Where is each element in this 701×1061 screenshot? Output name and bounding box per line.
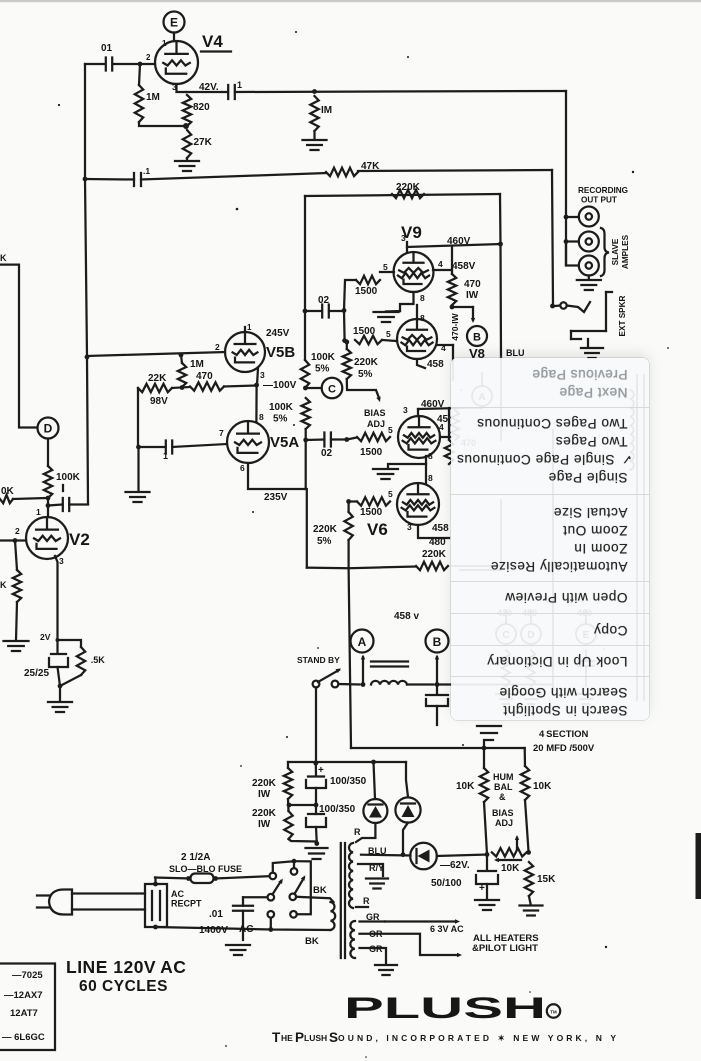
resistor 220K (feedback top) <box>392 182 424 198</box>
resistor 1500 (V9 upper grid) <box>355 276 380 297</box>
arrow node A <box>361 655 365 685</box>
capacitor 25/25 <box>24 640 68 679</box>
arrow 10K pot label <box>494 858 521 874</box>
svg-text:100/350: 100/350 <box>319 804 356 815</box>
jack tip EXT SPKR <box>550 302 567 308</box>
wire right rail down to jacks <box>565 91 567 265</box>
svg-text:458: 458 <box>427 359 444 370</box>
label V5B <box>215 342 295 361</box>
svg-text:25/25: 25/25 <box>24 668 49 679</box>
ground (heater winding) <box>375 965 397 975</box>
svg-text:50/100: 50/100 <box>431 878 462 889</box>
wire switch to primary <box>296 897 334 902</box>
svg-text:1: 1 <box>247 323 252 332</box>
svg-text:8: 8 <box>428 473 433 483</box>
scan gray top edge <box>0 0 701 2</box>
wire D3 to pot <box>437 855 487 857</box>
svg-text:4: 4 <box>438 259 443 269</box>
switch power DPDT <box>268 868 298 917</box>
wire V9 lower pin3 <box>417 359 425 368</box>
wire D2 to BLU line <box>401 823 408 858</box>
resistor 1.5K (V2 cathode) <box>58 640 106 675</box>
label GR lead 2 <box>369 944 383 954</box>
svg-text:OUT PUT: OUT PUT <box>581 196 617 205</box>
svg-text:10K: 10K <box>456 781 475 792</box>
wire choke to B node <box>407 682 452 687</box>
wire hum bal pot left <box>484 802 489 857</box>
svg-text:BIAS: BIAS <box>364 408 386 418</box>
svg-text:IW: IW <box>258 789 271 800</box>
wire 47K to right corner <box>358 170 552 171</box>
wire E to V4 pin 1 <box>162 33 174 49</box>
wire down to ground from 22K node <box>137 447 139 490</box>
svg-text:480: 480 <box>429 537 446 548</box>
resistor 1M (V5B grid) <box>178 355 204 387</box>
svg-text:1500: 1500 <box>353 326 376 337</box>
tube V9 upper <box>394 252 434 292</box>
jack RECORDING OUTPUT <box>564 207 599 227</box>
wire V9 pin3 to 460V rail <box>401 233 501 252</box>
svg-text:5: 5 <box>383 262 388 272</box>
wire feedback line to 47K <box>141 173 326 180</box>
svg-text:—62V.: —62V. <box>440 860 470 871</box>
svg-text:3: 3 <box>407 522 412 532</box>
label 2V <box>40 632 51 642</box>
wire B+ bus to hum bal <box>351 746 525 751</box>
svg-text:V6: V6 <box>367 520 388 539</box>
svg-text:3: 3 <box>172 82 177 92</box>
resistor K (V2 grid leak) <box>0 570 21 602</box>
node ghost D <box>521 608 541 704</box>
scan artifact right edge <box>696 833 701 899</box>
tube V9 lower <box>397 319 437 359</box>
svg-text:EXT SPKR: EXT SPKR <box>618 295 627 336</box>
diode rectifier D2 <box>395 762 420 823</box>
ground (below 27K) <box>175 158 199 171</box>
svg-text:HE: HE <box>281 1033 293 1043</box>
svg-text:8: 8 <box>420 313 425 323</box>
svg-text:E: E <box>170 16 178 30</box>
svg-text:LUSH: LUSH <box>304 1033 327 1043</box>
svg-text:T: T <box>272 1030 281 1045</box>
capacitor .1 (feedback line) <box>134 166 150 186</box>
label .01 1400V AC <box>199 909 253 936</box>
logo tagline <box>272 1030 616 1045</box>
wire cap node to V6 1500 <box>347 438 357 440</box>
svg-text:3: 3 <box>401 233 406 243</box>
svg-text:&: & <box>499 792 506 802</box>
label 4 SECTION <box>539 729 589 740</box>
label 6L6GC <box>2 1032 45 1043</box>
ground (V2 cathode) <box>48 686 72 712</box>
svg-text:8: 8 <box>428 451 433 461</box>
node A (circle) <box>351 630 374 653</box>
resistor 220K 5% (V6 bias) <box>313 502 353 569</box>
wire V6 lower pin3 <box>407 522 449 538</box>
svg-text:RECORDING: RECORDING <box>578 186 628 195</box>
jack SLAVE AMPLES 2 <box>566 242 599 276</box>
wire 235V bus down and right <box>307 489 416 568</box>
switch wiring top <box>273 859 311 915</box>
ground (below slave jacks) <box>577 276 601 291</box>
ground (R/Y, inverted? normal) <box>366 879 388 889</box>
resistor 470 1W (V6 plate, half covered) <box>445 408 453 464</box>
tube chart box <box>0 964 55 1051</box>
wire V5A plate to cap <box>306 437 349 442</box>
label AC RECPT <box>171 889 202 909</box>
svg-text:2 1/2A: 2 1/2A <box>181 852 210 863</box>
wire V9 lower pin5 <box>382 329 397 341</box>
node B (circle, V9) <box>467 326 487 346</box>
wire corner down to ext spkr node <box>552 170 553 306</box>
wire grid bus to V5B <box>87 352 225 357</box>
svg-text:470: 470 <box>196 371 213 382</box>
resistor 1M (to ground, right) <box>310 96 332 131</box>
wire bus to V6 lower 1500 <box>346 499 357 504</box>
label 470-1W (vertical) <box>450 312 460 340</box>
svg-text:60 CYCLES: 60 CYCLES <box>79 978 168 995</box>
wire V9 lower pin4 <box>437 343 453 360</box>
wire cap node down to lower 1500 <box>342 311 347 344</box>
svg-text:—12AX7: —12AX7 <box>4 990 43 1001</box>
resistor 220K 1W (bleeder 2) <box>252 799 293 839</box>
svg-text:235V: 235V <box>264 492 288 503</box>
tube V6 upper <box>398 416 440 458</box>
wire ghost b line <box>452 566 553 685</box>
wire ghost trio rail <box>506 610 586 624</box>
wire V6 pin3 to 460V rail <box>403 405 460 416</box>
svg-text:AC: AC <box>239 924 253 935</box>
tube V5B <box>225 323 265 372</box>
svg-text:5%: 5% <box>273 414 288 425</box>
svg-text:—100V: —100V <box>263 380 297 391</box>
ground (V5A grid return) <box>126 492 150 502</box>
wire V6 upper cathode <box>388 451 433 467</box>
svg-text:5%: 5% <box>358 369 373 380</box>
wire 100V node to V5A pin8 <box>256 385 264 422</box>
label V5A <box>270 434 299 451</box>
svg-text:8: 8 <box>259 412 264 422</box>
wire rail corner down to 220K bleeders <box>287 762 289 768</box>
label STAND BY <box>297 655 340 665</box>
wire left-edge feed to node D <box>0 253 37 428</box>
svg-text:1500: 1500 <box>355 286 378 297</box>
label V4 <box>201 32 231 52</box>
label -62V. <box>440 860 470 871</box>
svg-text:AMPLES: AMPLES <box>621 234 630 269</box>
svg-text:IW: IW <box>466 290 479 301</box>
capacitor .01 1400V AC <box>233 897 253 940</box>
wire ghost v8 area <box>453 360 482 408</box>
svg-text:SLAVE: SLAVE <box>611 238 620 265</box>
node ghost C <box>496 608 516 704</box>
diode rectifier D1 <box>363 762 387 823</box>
svg-text:BIAS: BIAS <box>492 808 514 818</box>
ground (V6 cathodes) <box>373 469 398 479</box>
svg-text:HUM: HUM <box>493 772 514 782</box>
label 458V 4 (V6) <box>437 414 449 432</box>
winding HV secondary <box>349 843 353 908</box>
label 12AX7 <box>4 990 43 1001</box>
label 7025 <box>12 970 43 981</box>
node E (circle) <box>164 12 185 33</box>
ground (ext spkr) <box>581 339 603 358</box>
resistor from left edge 10K <box>0 486 46 503</box>
svg-text:1: 1 <box>36 507 41 517</box>
svg-text:460V: 460V <box>447 236 471 247</box>
svg-text:5: 5 <box>386 329 391 339</box>
svg-text:RECPT: RECPT <box>171 899 202 909</box>
transformer core <box>341 843 345 958</box>
capacitor 02 (V9 drive) <box>318 295 330 318</box>
wire V5A plate junction <box>303 429 308 489</box>
label -100V <box>263 380 297 391</box>
svg-text:B: B <box>473 332 481 344</box>
svg-text:5: 5 <box>388 489 393 499</box>
switch STAND BY <box>313 669 341 688</box>
svg-text:10K: 10K <box>501 863 520 874</box>
svg-text:5: 5 <box>388 425 393 435</box>
wire feedback line left <box>85 178 134 181</box>
label EXT SPKR (vertical) <box>618 295 627 336</box>
svg-text:B: B <box>433 635 442 649</box>
svg-text:IM: IM <box>321 105 332 116</box>
svg-text:&PILOT LIGHT: &PILOT LIGHT <box>472 943 538 954</box>
svg-text:ADJ: ADJ <box>495 818 513 828</box>
resistor 470 (V5 bias) <box>180 371 224 391</box>
wire cathode rc join <box>58 667 82 688</box>
svg-text:2V: 2V <box>40 632 51 642</box>
label 20 MFD/500V <box>533 743 595 754</box>
wire V5A pin6 cathode to 235V bus <box>240 463 305 489</box>
svg-text:BK: BK <box>305 936 319 947</box>
label BK lower <box>305 936 319 947</box>
svg-text:3: 3 <box>403 405 408 415</box>
wire V2 grid pin2 <box>0 526 26 543</box>
label V8 (right column pair) <box>469 346 485 361</box>
ac receptacle <box>145 882 167 930</box>
wire V9 lower pin8 <box>417 305 425 323</box>
svg-text:1: 1 <box>163 451 168 461</box>
wire V2 cathode pin3 <box>55 556 64 642</box>
wire 220K top rail <box>305 194 500 196</box>
ground (50/100) <box>475 900 499 910</box>
bracket slave amples <box>601 228 609 276</box>
wire fuse line <box>155 876 270 878</box>
label V9 <box>401 223 422 242</box>
wire B+ top rail 42V to right corner <box>235 89 566 94</box>
resistor 1500 (V6 upper grid) <box>357 425 393 458</box>
wire 22K left down to cap <box>136 388 141 449</box>
wire 1M bottom to cathode junction <box>139 122 189 129</box>
fuse <box>186 874 218 884</box>
resistor 10K (hum bal right) <box>521 748 552 800</box>
node ghost A (V8 plate) <box>451 373 492 448</box>
wire long bus to standby <box>349 568 351 748</box>
wire primary bottom <box>268 918 330 932</box>
svg-text:4 SECTION: 4 SECTION <box>539 729 589 740</box>
wire V9 upper pin5 <box>380 262 394 272</box>
wire input cap to grid pin 2 <box>85 53 155 66</box>
wire lower1500 rail to 220K5% <box>346 341 348 342</box>
svg-text:22K: 22K <box>148 373 167 384</box>
resistor 220K (V6 output) <box>416 549 448 570</box>
wire recpt bottom rail <box>156 927 271 930</box>
node ghost E <box>576 608 596 704</box>
tube V5A <box>227 421 269 463</box>
svg-text:1400V: 1400V <box>199 925 228 936</box>
wire 470 to 100V node <box>224 386 257 387</box>
ground (15K) <box>520 896 543 916</box>
resistor 1M (grid leak) <box>135 64 160 122</box>
wire cap to switch pole <box>243 896 268 898</box>
capacitor .1 (V5A grid) <box>163 441 172 462</box>
wire standby to A node <box>339 682 366 687</box>
label 42V. <box>199 82 219 93</box>
svg-text:220K: 220K <box>422 549 447 560</box>
resistor 220K 1W (bleeder 1) <box>252 768 292 800</box>
svg-text:A: A <box>358 635 367 649</box>
wire V5B pin3 to 100V node <box>254 368 265 387</box>
svg-text:K: K <box>0 580 7 590</box>
svg-text:100K: 100K <box>311 352 336 363</box>
resistor 820 <box>183 95 210 126</box>
label BIAS ADJ (driver) <box>364 408 386 429</box>
label R/Y lead <box>369 863 384 873</box>
label 235V <box>264 492 288 503</box>
logo PLUSH <box>344 992 560 1025</box>
svg-text:3: 3 <box>260 370 265 380</box>
transformer ghost core <box>630 375 644 700</box>
wire 470 bottom to node B <box>450 305 473 310</box>
label 60 CYCLES <box>79 978 168 995</box>
label HUM BAL & BIAS ADJ <box>492 772 514 828</box>
svg-text:220K: 220K <box>252 808 277 819</box>
label 458V (V9) <box>452 261 476 272</box>
label V2 <box>69 530 90 549</box>
svg-text:S: S <box>329 1030 338 1045</box>
capacitor .1 (V2 out?) <box>48 498 88 511</box>
capacitor filter (B node) <box>426 685 448 707</box>
wire grid resistor down <box>15 541 17 571</box>
wire V9 upper cathode pin8 <box>400 292 425 311</box>
winding primary <box>331 902 336 930</box>
label fuse 2 1/2A <box>169 852 242 874</box>
label 460V <box>447 236 471 247</box>
wire V9 upper pin4 <box>433 259 452 270</box>
wire HV node rail <box>288 760 406 766</box>
wire recpt top to fuse <box>154 878 156 885</box>
wire V6 upper pin4 <box>440 436 452 438</box>
svg-text:4: 4 <box>439 422 444 432</box>
svg-text:V4: V4 <box>202 32 223 51</box>
svg-text:458 v: 458 v <box>394 611 419 622</box>
ext spkr contact <box>567 302 590 312</box>
label 458 (V9 lower) <box>427 359 444 370</box>
winding heater 6.3V <box>350 921 355 958</box>
jack SLAVE AMPLES 1 <box>564 232 599 252</box>
label RECORDING OUT PUT <box>578 186 628 205</box>
svg-text:245V: 245V <box>266 328 290 339</box>
svg-text:TM: TM <box>550 1010 557 1015</box>
svg-text:2: 2 <box>146 53 151 62</box>
capacitor 02 (V5A out) <box>321 433 333 460</box>
svg-text:100/350: 100/350 <box>330 776 367 787</box>
capacitor 100/350 (1) <box>306 763 367 788</box>
svg-text:D: D <box>44 422 53 436</box>
resistor 220K 5% (V9 bias ref) <box>343 340 379 380</box>
svg-text:1M: 1M <box>146 92 160 103</box>
capacitor .1 (coupling out of V4) <box>228 80 242 99</box>
label LINE 120VAC <box>66 957 186 977</box>
svg-text:12AT7: 12AT7 <box>10 1008 38 1019</box>
wire pilot light arrow <box>360 934 463 958</box>
ground (below right 1M) <box>303 131 327 150</box>
svg-text:27K: 27K <box>194 137 213 148</box>
label BLU lead <box>368 846 387 856</box>
wire GR2 to ground <box>360 948 387 963</box>
ground (V2 grid) <box>4 602 29 651</box>
label 460V (V6) <box>421 399 445 410</box>
wire pin3 to cap <box>186 91 228 93</box>
label BK upper <box>313 885 327 896</box>
svg-text:BAL: BAL <box>494 782 513 792</box>
label V6 <box>367 520 388 539</box>
inductor choke (A-B) <box>371 662 408 685</box>
capacitor 50/100 <box>431 855 498 895</box>
label PILOT LIGHT <box>472 943 538 954</box>
node D (circle) <box>38 418 59 439</box>
wire cap to V5A grid pin7 <box>141 428 227 447</box>
svg-text:20 MFD /500V: 20 MFD /500V <box>533 743 595 754</box>
svg-text:1500: 1500 <box>360 507 383 518</box>
ext spkr sleeve frame <box>571 292 612 339</box>
resistor 22K <box>138 373 172 407</box>
svg-text:R: R <box>363 896 370 906</box>
label 458 480 (V6 lower) <box>429 523 449 548</box>
wire cap bank bottom <box>289 827 320 846</box>
svg-text:4: 4 <box>441 343 446 353</box>
resistor 100K (V2 grid) <box>44 466 81 498</box>
svg-text:458V: 458V <box>452 261 476 272</box>
wire 100K to V2 grid <box>36 496 50 517</box>
label OR lead <box>369 929 383 939</box>
svg-text:1: 1 <box>237 80 242 90</box>
wire cap02 to bus <box>305 310 344 312</box>
wire V6 lower pin8 <box>426 464 433 484</box>
wire 1500 to cap node <box>342 280 356 313</box>
svg-text:STAND BY: STAND BY <box>297 655 340 665</box>
svg-text:100K: 100K <box>269 402 294 413</box>
svg-text:02: 02 <box>321 448 333 459</box>
label 458 v <box>394 611 419 622</box>
svg-text:1500: 1500 <box>360 447 383 458</box>
diode D3 bias <box>410 843 437 870</box>
svg-text:LINE 120V AC: LINE 120V AC <box>66 957 186 977</box>
resistor 470 1W (V9 plate) <box>448 247 481 305</box>
svg-text:BK: BK <box>313 885 327 896</box>
wire hum bal pot right <box>525 800 531 855</box>
svg-text:5%: 5% <box>315 364 330 375</box>
svg-text:V2: V2 <box>69 530 90 549</box>
svg-text:.5K: .5K <box>89 655 105 665</box>
svg-text:7: 7 <box>219 428 224 438</box>
svg-text:OUND, INCORPORATED ✶ NEW Y: OUND, INCORPORATED ✶ NEW YORK, N Y <box>338 1033 616 1043</box>
resistor 27K <box>183 130 213 158</box>
svg-text:2: 2 <box>15 526 20 536</box>
node B2 (circle) <box>426 630 449 653</box>
svg-text:02: 02 <box>318 295 330 306</box>
